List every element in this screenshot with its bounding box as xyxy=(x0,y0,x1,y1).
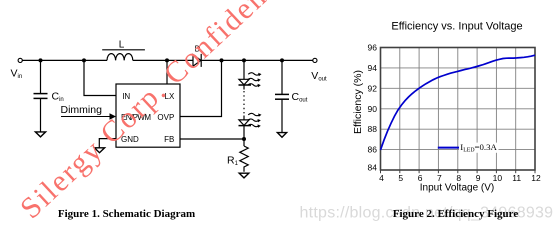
svg-text:94: 94 xyxy=(368,63,378,73)
svg-text:5: 5 xyxy=(398,173,403,183)
LED D1 xyxy=(239,79,252,85)
svg-text:Efficiency (%): Efficiency (%) xyxy=(352,70,364,134)
wire OVP branch xyxy=(180,60,222,116)
inductor L xyxy=(102,50,145,61)
wire LED branch top xyxy=(243,60,245,79)
svg-text:Cout: Cout xyxy=(292,91,308,104)
ground Cin xyxy=(35,132,45,137)
wire FB xyxy=(180,138,244,140)
svg-text:Figure 2. Efficiency Figure: Figure 2. Efficiency Figure xyxy=(393,208,519,220)
wire LED2 to FB junction xyxy=(243,126,245,146)
svg-text:84: 84 xyxy=(368,163,378,173)
wire LX branch xyxy=(166,60,168,84)
ground GND pin xyxy=(94,148,104,153)
svg-text:Dimming: Dimming xyxy=(61,104,103,116)
node junction Cin xyxy=(39,58,43,62)
chart curve ILED=0.3A xyxy=(381,55,536,150)
ground Cout xyxy=(277,133,286,138)
wire IN branch xyxy=(84,60,116,95)
svg-text:11: 11 xyxy=(512,173,521,183)
svg-text:88: 88 xyxy=(368,124,378,134)
svg-text:8: 8 xyxy=(456,173,461,183)
svg-text:Vout: Vout xyxy=(311,70,327,83)
svg-text:FB: FB xyxy=(164,135,174,144)
svg-text:OVP: OVP xyxy=(157,113,174,122)
LED D2 xyxy=(239,120,252,126)
chart y axis labels xyxy=(368,43,378,173)
terminal Vout xyxy=(313,58,317,62)
node junction OVP xyxy=(220,58,224,62)
svg-text:Input Voltage (V): Input Voltage (V) xyxy=(420,183,495,194)
svg-text:10: 10 xyxy=(493,173,503,183)
wire GND pin xyxy=(99,139,116,148)
svg-text:92: 92 xyxy=(368,83,378,93)
capacitor Cin xyxy=(34,94,48,99)
svg-text:7: 7 xyxy=(437,173,442,183)
node junction FB-R1 xyxy=(242,137,246,141)
wire inductor to diode xyxy=(133,59,193,61)
svg-text:90: 90 xyxy=(368,104,378,114)
svg-text:Efficiency vs. Input Voltage: Efficiency vs. Input Voltage xyxy=(391,21,522,33)
wire LED string middle dotted xyxy=(243,85,245,90)
svg-text:96: 96 xyxy=(368,43,378,53)
svg-text:Figure 1. Schematic Diagram: Figure 1. Schematic Diagram xyxy=(58,208,195,220)
svg-text:Vin: Vin xyxy=(11,67,23,80)
capacitor Cout xyxy=(275,94,289,99)
terminal Vin xyxy=(18,58,22,62)
node Dimming input arrow xyxy=(61,116,111,118)
chart legend xyxy=(459,143,499,153)
chart x axis labels xyxy=(379,173,541,183)
node junction IN xyxy=(82,58,86,62)
chart frame and grid xyxy=(381,48,536,171)
ground R1 xyxy=(239,173,249,178)
wire Cin branch xyxy=(40,60,42,93)
svg-text:12: 12 xyxy=(531,173,541,183)
diode D xyxy=(193,54,201,67)
wire top rail Vin to inductor xyxy=(22,59,107,61)
svg-text:4: 4 xyxy=(379,173,384,183)
chart x ticks xyxy=(381,170,536,173)
svg-text:86: 86 xyxy=(368,145,378,155)
svg-text:Cin: Cin xyxy=(52,91,64,104)
IC U1 LED driver xyxy=(116,84,180,147)
svg-text:L: L xyxy=(119,40,125,51)
resistor R1 xyxy=(240,146,248,172)
svg-text:R1: R1 xyxy=(227,155,239,168)
node junction LX xyxy=(165,58,169,62)
svg-text:9: 9 xyxy=(476,173,481,183)
wire Cout branch xyxy=(281,60,283,94)
node junction LED xyxy=(242,58,246,62)
svg-text:6: 6 xyxy=(418,173,423,183)
node junction Cout xyxy=(280,58,284,62)
wire diode to Vout xyxy=(202,59,313,61)
